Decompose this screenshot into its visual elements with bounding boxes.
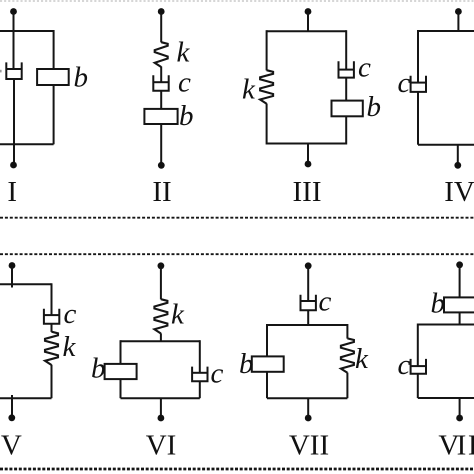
damper c (dashpot), model IV bbox=[411, 76, 426, 92]
svg-text:c: c bbox=[211, 358, 224, 390]
label VIII (roman numeral, cropped at right edge) bbox=[438, 430, 474, 462]
wire: model IV bottom bus (runs off right edge) bbox=[418, 144, 474, 146]
wire: model VI right branch upper bbox=[199, 340, 201, 373]
wire: model VI bottom stub bbox=[160, 398, 162, 416]
wire: model VI rod spring-to-box bbox=[160, 333, 162, 341]
damper c (dashpot), model II bbox=[153, 75, 168, 91]
row separator dashed line (upper) bbox=[0, 217, 474, 219]
svg-text:k: k bbox=[171, 299, 185, 331]
top border dashed line (faint, cropped) bbox=[0, 0, 474, 2]
damper b (block element), model VI bbox=[105, 364, 137, 379]
wire: model VII left branch upper bbox=[266, 324, 268, 357]
row separator dashed line (lower) bbox=[0, 253, 474, 255]
svg-text:c: c bbox=[64, 298, 77, 330]
svg-text:c: c bbox=[178, 67, 191, 99]
wire: model VII right branch upper bbox=[346, 324, 348, 339]
wire: model VI bottom bus bbox=[121, 397, 200, 399]
model I bottom terminal bbox=[10, 162, 17, 169]
svg-text:VII: VII bbox=[289, 430, 329, 462]
model III top terminal bbox=[305, 8, 312, 15]
wire: model II top rod bbox=[160, 13, 162, 42]
wire: model V top stub (overshoots bus) bbox=[11, 267, 13, 288]
spring k, model II bbox=[155, 42, 168, 67]
model III bottom terminal bbox=[305, 161, 312, 168]
wire: model V bottom bus bbox=[0, 397, 52, 399]
damper b (block element), model III bbox=[332, 101, 363, 117]
wire: model II rod spring-to-damper bbox=[160, 67, 162, 83]
wire: model V right branch lower bbox=[51, 365, 53, 399]
svg-text:I: I bbox=[7, 176, 17, 208]
wire: model VIII left branch upper bbox=[417, 324, 419, 367]
wire: model VII rod damper-to-box bbox=[307, 310, 309, 325]
model V top terminal bbox=[9, 262, 16, 269]
wire: model III bottom stub bbox=[307, 144, 309, 162]
model VIII bottom terminal bbox=[456, 415, 463, 422]
wire: model V right branch upper bbox=[51, 283, 53, 315]
wire: model VI left branch lower bbox=[120, 379, 122, 398]
svg-text:IV: IV bbox=[444, 176, 474, 208]
spring k, model VII bbox=[341, 338, 354, 372]
damper b (block element), model II bbox=[144, 109, 177, 124]
wire: model VII bottom stub bbox=[307, 398, 309, 416]
damper c (dashpot), model VIII bbox=[411, 359, 426, 374]
wire: model V top bus bbox=[0, 283, 52, 285]
wire: model IV left branch upper bbox=[417, 30, 419, 83]
svg-text:b: b bbox=[179, 100, 194, 132]
model V bottom terminal bbox=[8, 414, 15, 421]
svg-text:b: b bbox=[239, 348, 254, 380]
model VII bottom terminal bbox=[305, 415, 312, 422]
wire: model VII top rod bbox=[307, 267, 309, 301]
damper c (dashpot), model VI bbox=[192, 367, 207, 382]
wire: model II rod damper-to-block bbox=[160, 91, 162, 110]
wire: model IV bottom stub bbox=[457, 145, 459, 163]
model VIII top terminal bbox=[456, 261, 463, 268]
svg-text:k: k bbox=[63, 331, 77, 363]
wire: model VIII box top bus (runs off right edge) bbox=[418, 324, 474, 326]
damper c (dashpot), model VII bbox=[301, 295, 316, 311]
damper b (block element), model VIII (cropped at right) bbox=[444, 297, 474, 312]
damper c (dashpot), model V bbox=[44, 309, 59, 324]
wire: model I bottom bus bbox=[0, 143, 54, 145]
wire: model III left branch upper bbox=[266, 30, 268, 70]
wire: model III right branch middle bbox=[345, 78, 347, 101]
svg-text:b: b bbox=[431, 288, 446, 320]
damper c (dashpot), model I bbox=[6, 62, 21, 79]
svg-text:VI: VI bbox=[146, 430, 177, 462]
svg-text:k: k bbox=[177, 37, 191, 69]
wire: model V bottom stub (overshoots bus) bbox=[11, 395, 13, 415]
svg-text:k: k bbox=[355, 343, 369, 375]
damper c (dashpot), model III bbox=[339, 61, 354, 77]
svg-text:I: I bbox=[468, 430, 474, 462]
wire: model III bottom bus bbox=[267, 143, 347, 145]
label c remnant (cropped at left edge), model I bbox=[0, 70, 2, 73]
wire: model VIII left branch lower bbox=[417, 374, 419, 398]
model VI top terminal bbox=[158, 262, 165, 269]
wire: model I right branch lower bbox=[53, 85, 55, 144]
wire: model VIII rod block-to-box bbox=[459, 312, 461, 324]
wire: model IV top stub bbox=[457, 13, 459, 31]
model VI bottom terminal bbox=[158, 415, 165, 422]
wire: model I right branch upper bbox=[53, 30, 55, 70]
svg-text:I: I bbox=[457, 430, 467, 462]
wire: model VI right branch lower bbox=[199, 381, 201, 398]
wire: model III top stub bbox=[307, 13, 309, 31]
wire: model VI box top bus bbox=[121, 340, 200, 342]
wire: model VIII bottom bus (runs off right edge) bbox=[418, 397, 474, 399]
svg-text:c: c bbox=[398, 67, 411, 99]
wire: model II bottom rod bbox=[160, 124, 162, 163]
model I top terminal bbox=[10, 8, 17, 15]
wire: model I centre rod lower bbox=[13, 79, 15, 162]
svg-text:c: c bbox=[398, 349, 411, 381]
damper b (block element), model VII bbox=[252, 356, 284, 371]
wire: model VI top rod bbox=[160, 267, 162, 299]
wire: model III top bus bbox=[267, 30, 347, 32]
model IV bottom terminal bbox=[454, 162, 461, 169]
svg-text:k: k bbox=[242, 74, 256, 106]
svg-text:II: II bbox=[152, 176, 171, 208]
svg-text:b: b bbox=[367, 91, 382, 123]
wire: model VII box top bus bbox=[267, 324, 347, 326]
wire: model VII left branch lower bbox=[266, 372, 268, 398]
wire: model VIII top rod bbox=[459, 266, 461, 298]
svg-text:b: b bbox=[74, 62, 89, 94]
svg-text:V: V bbox=[1, 430, 22, 462]
wire: model IV top bus (runs off right edge) bbox=[418, 30, 474, 32]
wire: model I top rod (terminal to damper c piston) bbox=[13, 13, 15, 69]
wire: model VII bottom bus bbox=[267, 397, 347, 399]
svg-text:III: III bbox=[293, 176, 322, 208]
wire: model IV left branch lower bbox=[417, 92, 419, 145]
wire: model III right branch lower bbox=[345, 116, 347, 144]
spring k, model V bbox=[45, 332, 58, 365]
wire: model V rod damper-to-spring bbox=[51, 324, 53, 332]
wire: model VI left branch upper bbox=[120, 340, 122, 364]
spring k, model III bbox=[260, 70, 273, 104]
model II bottom terminal bbox=[158, 162, 165, 169]
wire: model III left branch lower bbox=[266, 104, 268, 145]
wire: model III right branch upper bbox=[345, 30, 347, 69]
wire: model I top bus bbox=[0, 30, 54, 32]
damper b (block element), model I bbox=[37, 69, 69, 85]
wire: model VII right branch lower bbox=[346, 373, 348, 399]
svg-text:b: b bbox=[91, 353, 106, 385]
spring k, model VI bbox=[154, 299, 167, 333]
svg-text:c: c bbox=[319, 286, 332, 318]
wire: model VIII bottom stub bbox=[459, 398, 461, 416]
svg-text:c: c bbox=[358, 52, 371, 84]
bottom border dashed line bbox=[0, 468, 474, 471]
model IV top terminal bbox=[455, 8, 462, 15]
model VII top terminal bbox=[305, 262, 312, 269]
model II top terminal bbox=[158, 8, 165, 15]
